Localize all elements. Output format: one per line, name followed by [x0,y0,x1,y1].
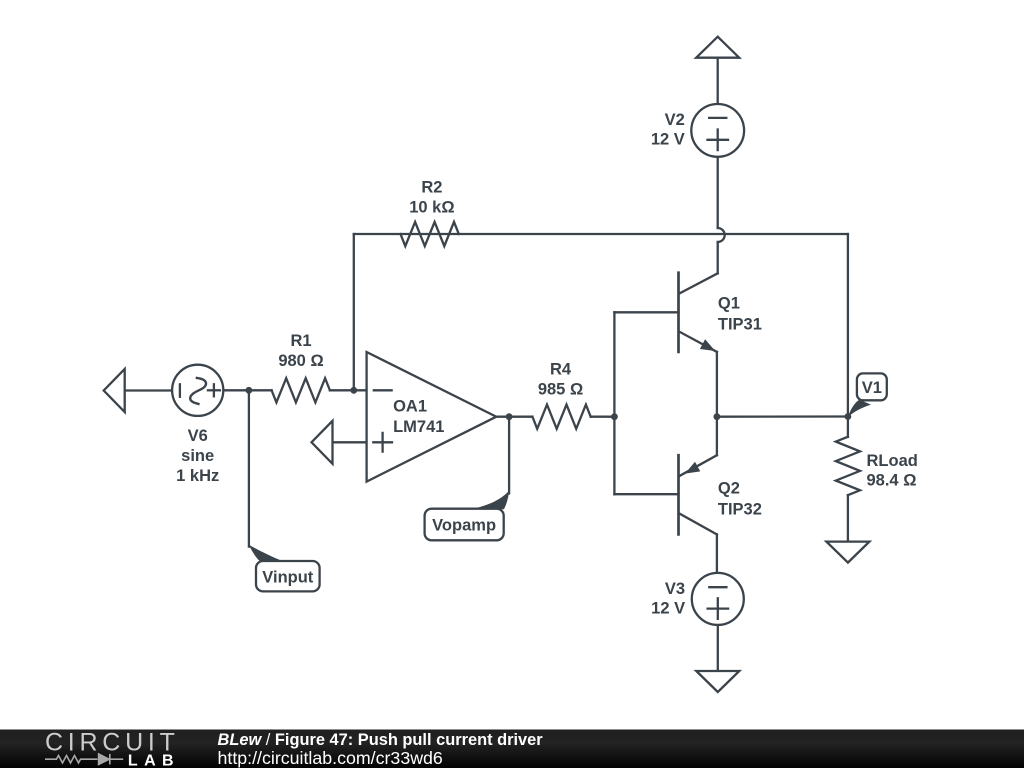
svg-text:1 kHz: 1 kHz [176,467,219,485]
svg-text:R1: R1 [290,332,311,350]
svg-text:LAB: LAB [128,752,180,768]
svg-text:OA1: OA1 [393,398,427,416]
svg-text:sine: sine [181,447,214,465]
svg-text:980 Ω: 980 Ω [278,352,323,370]
svg-text:Vinput: Vinput [262,568,314,586]
svg-text:V2: V2 [665,111,685,129]
svg-text:RLoad: RLoad [867,452,918,470]
svg-text:Vopamp: Vopamp [432,517,496,535]
svg-text:98.4 Ω: 98.4 Ω [867,472,917,490]
svg-text:10 kΩ: 10 kΩ [409,198,454,216]
svg-text:12 V: 12 V [651,600,685,618]
svg-text:BLew / Figure 47: Push pull cu: BLew / Figure 47: Push pull current driv… [218,731,544,749]
svg-text:V3: V3 [665,580,685,598]
svg-text:LM741: LM741 [393,418,444,436]
svg-text:V6: V6 [188,427,208,445]
svg-text:985 Ω: 985 Ω [538,381,583,399]
svg-text:R2: R2 [421,178,442,196]
svg-text:12 V: 12 V [651,131,685,149]
svg-text:Q1: Q1 [718,295,740,313]
svg-text:R4: R4 [550,361,572,379]
svg-text:V1: V1 [862,379,882,397]
svg-text:http://circuitlab.com/cr33wd6: http://circuitlab.com/cr33wd6 [218,748,443,768]
svg-text:TIP32: TIP32 [718,500,762,518]
svg-text:TIP31: TIP31 [718,315,762,333]
svg-text:Q2: Q2 [718,480,740,498]
